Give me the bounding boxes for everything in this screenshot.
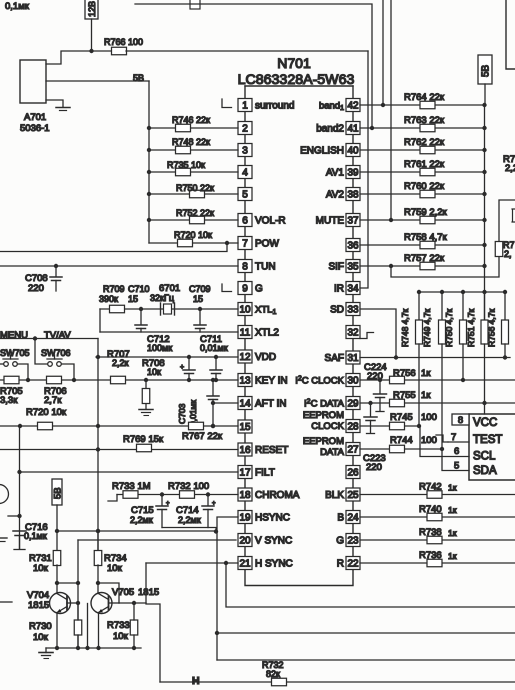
resistor R750 22к [190,190,205,198]
capacitor C710 15 [140,309,142,325]
EEPROM chip outline [469,414,515,480]
svg-text:33: 33 [347,305,359,316]
resistor R732 100 [180,491,195,499]
svg-text:12: 12 [239,352,251,363]
resistor R769 15к [137,444,152,452]
wire pin 8 TUN row [0,265,238,267]
wire pin7 branch down-left [0,243,227,252]
capacitor C709 15 [199,309,201,325]
resistor R752 22к [190,216,205,224]
svg-text:220: 220 [366,462,382,473]
node junction on 5V bus [482,103,486,107]
EEPROM pin 8 box [452,414,469,425]
pin 15 box (left) [238,420,252,433]
svg-text:13: 13 [239,376,251,387]
wire 5V row y=531 [57,530,216,532]
svg-text:2,2: 2,2 [505,163,515,174]
svg-text:100: 100 [421,412,437,423]
svg-text:R720 10к: R720 10к [174,230,212,240]
svg-text:TV/AV: TV/AV [44,330,71,341]
svg-text:CLOCK: CLOCK [311,421,344,432]
wire pin27 EEPROM DATA row [360,448,442,450]
svg-text:R752 22к: R752 22к [176,208,214,218]
wire 12V tag lead [91,19,93,51]
pin 37 box (right) [346,214,360,227]
svg-text:1к: 1к [448,528,457,538]
svg-text:37: 37 [347,216,359,227]
pin 1 box (left) [238,99,252,112]
svg-text:3,3к: 3,3к [0,395,18,406]
svg-text:10к: 10к [107,563,123,574]
wire pin20 V SYNC row [78,539,236,541]
node junction pin42 wire [381,103,385,107]
svg-text:XTL2: XTL2 [255,328,279,339]
resistor R732 82к (bottom) [272,678,287,686]
pin 19 box (left) [238,511,252,524]
pin 36 box (right) [346,239,360,252]
svg-text:R735 10к: R735 10к [167,160,205,170]
wire 5V tag lead [56,505,58,531]
resistor R730 10к [74,620,82,635]
resistor R761 22к [420,168,435,176]
wire pin 38 row to bus [360,193,485,195]
svg-text:SDA: SDA [473,465,497,477]
wire vertical top to pin42 row [382,0,384,105]
resistor R720 10к (lower) [38,422,53,430]
wire V705 base stub [109,602,120,604]
resistor R764 22к [420,101,435,109]
svg-text:2,2к: 2,2к [112,358,129,368]
svg-text:R750 22к: R750 22к [176,183,214,193]
wire pin 25 row to edge [360,494,515,496]
wire pin 2 row [149,127,238,129]
wire A701 5V output [46,80,149,82]
node junction pin7 branch [225,241,229,245]
svg-text:42: 42 [347,101,359,112]
node junction C709 [198,307,202,311]
svg-text:34: 34 [347,284,359,295]
wire pin31 SAF row [360,357,510,359]
capacitor C711 0,01мк [214,355,218,359]
wire pin21 H SYNC row [146,562,238,564]
node junction C708 [54,264,58,268]
pin 9 stub symbol [222,284,232,292]
wire MENU/TV-AV 5V line [0,338,98,340]
crystal 6701 32kHz [160,303,162,315]
svg-text:15: 15 [193,294,203,304]
wire x=226 down to row607 [226,563,515,607]
capacitor C703 0,01мк (rotated labels) [212,380,214,396]
svg-text:4: 4 [242,168,248,179]
resistor R7xx 2,2к right edge (vertical) [495,242,503,257]
svg-text:SIF: SIF [328,262,344,273]
wire pin 40 row to bus [360,149,485,151]
resistor R748 4,7к (vertical) [417,290,421,294]
svg-text:100мк: 100мк [147,343,172,353]
svg-text:41: 41 [347,124,359,135]
wire V705 collector [97,583,99,594]
svg-text:5: 5 [454,461,459,472]
wire pin 23 row to edge [360,539,515,541]
pin 42 box (right) [346,99,360,112]
wire pin15 row [0,425,238,427]
pin 30 box (right) [346,374,360,387]
IR receiver A701 5036-1 box [20,60,46,103]
wire V704 emitter [56,613,58,649]
wire R748 to SCL node [418,344,420,426]
wire vertical x=217 down [216,532,218,661]
svg-text:V SYNC: V SYNC [255,536,292,547]
component fragment right edge [512,209,515,222]
resistor R745 100 [390,422,405,430]
pin 24 box (right) [346,511,360,524]
wire to SCL [420,426,469,457]
pin 5 box (left) [238,188,252,201]
svg-text:+: + [166,501,170,507]
wire pin 24 row to edge [360,516,515,518]
resistor R744 100 [390,445,405,453]
svg-text:LC863328A-5W63: LC863328A-5W63 [238,72,355,88]
node junction SW706 tap [33,336,37,340]
wire pin28 EEPROM CLOCK row [360,425,420,427]
svg-text:R742: R742 [419,482,442,493]
resistor R759 2,2к [420,216,435,224]
svg-text:5036-1: 5036-1 [20,123,50,134]
svg-text:36: 36 [347,241,359,252]
wire pin 39 row to bus [360,171,485,173]
wire R751 to I2C data (via bus) [484,343,486,345]
resistor R731 10к [96,529,100,533]
pin 7 box (left) [238,237,252,250]
net tag 5V (top right) [478,55,492,84]
resistor R755 1к [390,399,405,407]
svg-text:SCL: SCL [473,451,496,463]
svg-text:G: G [255,284,263,295]
resistor R733 10к (at V705) [130,620,138,635]
capacitor C223 220 [368,401,372,405]
resistor R705 3,3к [4,376,19,384]
node junction VDD/5V vertical [96,355,100,359]
svg-text:40: 40 [347,146,359,157]
node junction on 5V bus [482,170,486,174]
svg-text:5В: 5В [481,64,492,77]
resistor R748 22к [176,146,191,154]
node junction to edge transistor [17,514,21,518]
wire pin 6 row [149,219,238,221]
node junction pin37 wire [389,218,393,222]
svg-text:SD: SD [330,305,344,316]
svg-text:R756 4,7к: R756 4,7к [487,309,497,347]
node junction on 5V bus [147,192,151,196]
svg-text:DATA: DATA [320,447,345,458]
svg-text:1к: 1к [421,368,431,379]
pin 32 box (right) [346,326,360,339]
ground at A701 [46,100,63,107]
svg-text:KEY IN: KEY IN [255,376,288,387]
transistor V704 1815 [50,593,71,614]
svg-text:R749 4,7к: R749 4,7к [422,309,432,347]
svg-text:2,: 2, [504,249,512,259]
svg-text:1815: 1815 [28,600,49,611]
capacitor C714 2,2мк [206,492,210,496]
svg-text:TEST: TEST [473,434,502,446]
resistor R756 4,7к (vertical) [503,290,507,294]
svg-text:29: 29 [347,399,359,410]
svg-text:FILT: FILT [255,468,275,479]
pin 28 box (right) [346,420,360,433]
svg-text:VCC: VCC [473,417,497,429]
svg-text:R767 22к: R767 22к [182,431,223,442]
svg-text:C710: C710 [128,284,150,294]
wire top edge to pin41 drop [135,4,372,128]
ground symbol [45,648,47,653]
svg-text:V705: V705 [112,587,134,598]
svg-text:R759 2,2к: R759 2,2к [404,207,448,218]
svg-text:R760 22к: R760 22к [404,181,445,192]
resistor R709 390к [110,305,125,313]
pin 41 box (right) [346,122,360,135]
wire pin17 FILT row [20,471,239,473]
node junction on 5V bus [147,126,151,130]
wire V705 step [98,583,119,603]
resistor R738 1к [427,536,442,544]
svg-text:32: 32 [347,328,359,339]
svg-text:8: 8 [242,262,248,273]
net tag 12V (rotated, cut at top) [85,0,98,19]
svg-text:R738: R738 [419,527,442,538]
svg-text:R744: R744 [390,435,413,446]
svg-text:R758 4,7к: R758 4,7к [404,232,448,243]
svg-text:R748 4,7к: R748 4,7к [400,309,410,347]
pin 35 box (right) [346,260,360,273]
pin 12 box (left) [238,350,252,363]
svg-text:POW: POW [255,239,279,250]
svg-text:31: 31 [347,353,359,364]
svg-text:I2C DATA: I2C DATA [304,399,345,410]
node junction pin41 wire [370,126,374,130]
resistor R720 10к (upper) [178,239,193,247]
svg-text:R746 22к: R746 22к [172,115,210,125]
wire pin11 XTL2 row [100,331,238,333]
resistor R767 22к [189,422,204,430]
wire 5V bus right (x=484.5) [484,105,486,414]
svg-text:0,1мк: 0,1мк [5,1,30,12]
svg-text:R733: R733 [107,620,130,631]
pin 29 box (right) [346,397,360,410]
switch SW705 [4,362,9,367]
svg-text:5В: 5В [53,487,64,499]
svg-text:R720 10к: R720 10к [26,407,67,418]
capacitor C708 220 [55,266,57,277]
svg-text:100: 100 [421,435,437,446]
wire pin19 HSYNC jog [217,517,238,532]
resistor R735 10к [176,168,191,176]
svg-text:38: 38 [347,190,359,201]
svg-text:11: 11 [240,328,251,339]
svg-text:R730: R730 [29,621,52,632]
pin 31 box (right) [346,351,360,364]
svg-text:15: 15 [239,422,251,433]
pin 34 box (right) [346,282,360,295]
svg-text:R763 22к: R763 22к [404,115,445,126]
svg-text:BLK: BLK [325,490,344,501]
node junction C710 [139,307,143,311]
pin 25 box (right) [346,488,360,501]
svg-text:220: 220 [367,371,383,382]
capacitor C712 100мк [187,355,191,359]
capacitor C715 2,2мк [160,492,164,496]
resistor R751 4,7к (vertical) [482,290,486,294]
net tag fragment top-center [190,0,200,9]
pin 10 box (left) [238,303,252,316]
svg-text:VOL-R: VOL-R [255,216,286,227]
transistor V705 1815 [91,593,112,614]
wire V704 base fragment to edge [0,601,12,603]
svg-text:6: 6 [454,446,459,457]
svg-text:32кГц: 32кГц [150,293,174,303]
svg-text:R764 22к: R764 22к [404,92,445,103]
wire R756 to SAF [504,344,506,358]
svg-text:1к: 1к [421,390,431,401]
resistor R742 1к [427,491,442,499]
node junction on 5V bus [482,218,486,222]
wire A701 to R766 [46,51,112,64]
svg-text:1815: 1815 [138,587,159,598]
svg-text:24: 24 [347,513,359,524]
resistor R746 22к [176,124,191,132]
svg-text:15: 15 [128,294,138,304]
svg-text:N701: N701 [277,55,311,71]
capacitor C716 0,1мк [13,530,26,532]
wire V705 base-side drop [87,604,89,649]
wire pin 4 row [149,171,238,173]
svg-text:SW706: SW706 [41,348,71,358]
net tag 5V (lower left) [52,479,62,505]
svg-text:R736: R736 [419,550,442,561]
wire 5V bus left (x=149) [148,81,150,243]
wire 5V vertical (x=98) [97,339,99,552]
svg-text:30: 30 [347,376,359,387]
svg-text:C703: C703 [177,403,187,424]
svg-text:SW705: SW705 [0,348,30,358]
node junction on 5V bus [482,264,486,268]
wire R750 to I2C clock [462,344,464,380]
svg-text:82к: 82к [266,669,280,679]
svg-text:VDD: VDD [255,352,276,363]
resistor R734 10к [97,531,99,551]
svg-text:5В: 5В [133,73,144,83]
wire row 633 [217,632,515,634]
svg-text:18: 18 [239,490,251,501]
svg-text:21: 21 [239,559,251,570]
svg-text:8: 8 [458,415,463,426]
node junction on 5V bus [482,126,486,130]
wire pin29 I2C DATA row [360,402,515,404]
resistor R706 2,7к [47,376,62,384]
wire pin10 XTL1 row [100,308,238,310]
svg-text:R: R [337,559,344,570]
resistor R750 4,7к (vertical) [461,290,465,294]
svg-text:0,1мк: 0,1мк [24,531,47,541]
svg-text:R750 4,7к: R750 4,7к [444,309,454,347]
svg-text:R748 22к: R748 22к [172,137,210,147]
pin 6 box (left) [238,214,252,227]
svg-text:AV2: AV2 [326,190,345,201]
svg-text:R740: R740 [419,504,442,515]
svg-text:H SYNC: H SYNC [255,559,293,570]
svg-text:AV1: AV1 [326,168,345,179]
svg-text:TUN: TUN [255,262,276,273]
box fragment top-right corner [506,0,515,69]
wire ground row [46,647,141,649]
svg-text:R756: R756 [393,368,416,379]
pin 8 box (left) [238,260,252,273]
svg-text:17: 17 [239,468,251,479]
svg-text:AFT IN: AFT IN [255,399,286,410]
resistor R733 1M [123,491,138,499]
svg-text:R766 100: R766 100 [104,37,143,47]
svg-text:39: 39 [347,168,359,179]
wire to SDA [442,449,469,471]
svg-text:10к: 10к [147,367,161,377]
node junction on 5V bus [482,243,486,247]
resistor R736 1к [427,559,442,567]
svg-text:2,7к: 2,7к [44,395,62,406]
pin 20 box (left) [238,534,252,547]
svg-text:EEPROM: EEPROM [303,410,344,421]
wire pin30 I2C CLOCK row [360,379,515,381]
wire pin 3 row [149,149,238,151]
svg-text:MUTE: MUTE [316,216,345,227]
wire pin 22 row to edge [360,562,515,564]
svg-text:28: 28 [347,422,359,433]
node junction on 5V bus [147,170,151,174]
svg-text:IR: IR [334,284,344,295]
svg-text:23: 23 [347,536,359,547]
svg-text:EEPROM: EEPROM [303,436,344,447]
pin 1 stub symbol [222,99,232,108]
svg-text:10: 10 [239,305,251,316]
resistor R707 2,2к [111,376,126,384]
wire V SYNC drop x=78 [77,540,79,648]
resistor R757 22к [420,262,435,270]
transistor circle cut at left edge [0,485,9,504]
svg-text:band2: band2 [316,124,344,135]
svg-text:R709: R709 [103,284,125,294]
svg-text:9: 9 [242,284,248,295]
wire R749 to SDA node [441,344,443,449]
wire 5V tag to bus [484,84,486,105]
pin 11 box (left) [238,326,252,339]
svg-text:26: 26 [347,468,359,479]
wire V705 emitter [98,613,100,649]
svg-text:2,2мк: 2,2мк [130,515,153,525]
pin 33 box (right) [346,303,360,316]
resistor R763 22к [420,124,435,132]
pin 17 box (left) [238,466,252,479]
pin 14 box (left) [238,397,252,410]
wire pin18 CHROMA row [117,494,238,496]
wire pin33 SD to SAF row [360,309,396,358]
switch SW706 [48,362,53,367]
wire pin16 RESET row [0,449,238,451]
svg-text:20: 20 [239,536,251,547]
wire pin 7 POW row [149,242,238,244]
pin 21 box (left) [238,557,252,570]
svg-text:6: 6 [242,216,248,227]
wire pin21 drop to V705 node [146,563,160,682]
wire crystal left corner down [99,309,101,332]
